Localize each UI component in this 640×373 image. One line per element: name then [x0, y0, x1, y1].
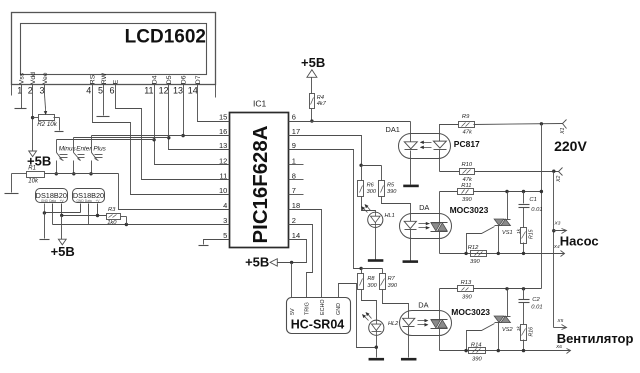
svg-text:14: 14: [292, 231, 300, 240]
svg-text:11: 11: [144, 86, 153, 96]
svg-text:1k: 1k: [516, 326, 522, 332]
svg-text:X5: X5: [556, 318, 563, 324]
svg-text:Vdd: Vdd: [30, 72, 37, 84]
svg-text:MOC3023: MOC3023: [450, 205, 489, 215]
svg-text:Plus: Plus: [93, 145, 106, 152]
svg-text:R15: R15: [529, 229, 535, 239]
svg-text:R6: R6: [367, 183, 375, 189]
svg-text:Vss: Vss: [19, 72, 26, 84]
svg-text:D7: D7: [195, 75, 202, 84]
svg-text:0.01: 0.01: [531, 305, 542, 311]
svg-text:4: 4: [86, 86, 91, 96]
svg-text:IC1: IC1: [253, 98, 267, 108]
svg-text:300: 300: [367, 283, 377, 289]
svg-text:R5: R5: [387, 183, 395, 189]
svg-text:2: 2: [292, 216, 296, 225]
svg-text:X3: X3: [554, 221, 561, 227]
svg-text:VS2: VS2: [502, 327, 513, 333]
svg-text:220V: 220V: [554, 138, 587, 154]
svg-text:VS1: VS1: [502, 230, 513, 236]
svg-text:X2: X2: [556, 176, 562, 183]
svg-text:D5: D5: [166, 75, 173, 84]
svg-text:GND: GND: [41, 199, 49, 203]
svg-text:R12: R12: [468, 245, 479, 251]
svg-text:4: 4: [223, 201, 227, 210]
svg-text:ECHO: ECHO: [320, 299, 326, 315]
svg-text:1k: 1k: [516, 228, 522, 234]
svg-text:1: 1: [292, 156, 296, 165]
svg-text:R10: R10: [462, 162, 473, 168]
svg-text:13: 13: [173, 86, 183, 96]
svg-text:+5B: +5B: [51, 244, 75, 259]
svg-text:6: 6: [110, 86, 115, 96]
svg-text:17: 17: [292, 127, 300, 136]
svg-text:C2: C2: [532, 297, 540, 303]
svg-text:9: 9: [292, 141, 296, 150]
svg-text:15: 15: [219, 112, 227, 121]
svg-text:18: 18: [292, 201, 300, 210]
svg-text:390: 390: [387, 189, 397, 195]
svg-text:PIC16F628A: PIC16F628A: [250, 125, 272, 243]
svg-text:DA1: DA1: [386, 125, 400, 134]
svg-text:390: 390: [462, 197, 472, 203]
svg-text:47k: 47k: [463, 177, 473, 183]
svg-text:R2 10k: R2 10k: [37, 121, 58, 128]
svg-text:R8: R8: [367, 276, 375, 282]
svg-text:6: 6: [292, 112, 296, 121]
svg-text:R14: R14: [471, 342, 482, 348]
svg-text:Data: Data: [85, 199, 92, 203]
svg-text:10: 10: [219, 186, 227, 195]
svg-text:3: 3: [223, 216, 227, 225]
svg-text:13: 13: [219, 141, 227, 150]
svg-text:RS: RS: [90, 74, 97, 84]
svg-text:D6: D6: [180, 75, 187, 84]
svg-text:HL1: HL1: [385, 213, 395, 219]
svg-text:PC817: PC817: [454, 139, 480, 149]
svg-text:7: 7: [292, 186, 296, 195]
svg-text:Enter: Enter: [76, 145, 92, 152]
svg-text:TRIG: TRIG: [305, 302, 311, 315]
svg-text:R11: R11: [461, 183, 471, 189]
svg-text:1k0: 1k0: [107, 220, 117, 226]
svg-text:D4: D4: [151, 75, 158, 84]
svg-text:R16: R16: [529, 327, 535, 337]
svg-text:16: 16: [219, 127, 227, 136]
svg-text:4k7: 4k7: [317, 101, 327, 107]
svg-text:+5B: +5B: [301, 55, 325, 70]
svg-text:47k: 47k: [463, 129, 473, 135]
svg-text:300: 300: [367, 189, 377, 195]
svg-text:R3: R3: [108, 207, 116, 213]
svg-text:RW: RW: [101, 72, 108, 84]
svg-text:R7: R7: [388, 276, 396, 282]
svg-text:DA: DA: [419, 203, 429, 212]
svg-text:HC-SR04: HC-SR04: [291, 318, 345, 332]
svg-text:5: 5: [223, 231, 227, 240]
svg-text:+5B: +5B: [245, 254, 269, 269]
svg-text:5: 5: [98, 86, 103, 96]
svg-text:HL2: HL2: [388, 321, 399, 327]
svg-text:390: 390: [472, 356, 482, 362]
svg-text:3: 3: [40, 86, 45, 96]
svg-text:12: 12: [219, 156, 227, 165]
svg-text:Vee: Vee: [42, 72, 49, 84]
svg-text:11: 11: [220, 171, 228, 180]
svg-text:E: E: [113, 79, 120, 84]
svg-text:0.01: 0.01: [531, 207, 542, 213]
svg-text:Data: Data: [49, 199, 56, 203]
svg-text:LCD1602: LCD1602: [125, 27, 206, 48]
svg-text:12: 12: [159, 86, 169, 96]
svg-text:DA: DA: [418, 300, 428, 309]
svg-text:C1: C1: [529, 197, 536, 203]
svg-text:GND: GND: [336, 303, 342, 315]
svg-text:14: 14: [188, 86, 198, 96]
svg-text:GND: GND: [77, 199, 85, 203]
svg-text:R9: R9: [462, 114, 470, 120]
svg-text:8: 8: [292, 171, 296, 180]
svg-text:R13: R13: [461, 280, 472, 286]
svg-text:Насос: Насос: [560, 233, 599, 248]
svg-text:390: 390: [470, 259, 480, 265]
svg-text:МОС3023: МОС3023: [451, 307, 490, 317]
svg-text:10k: 10k: [28, 178, 39, 184]
svg-text:390: 390: [388, 283, 398, 289]
svg-text:2: 2: [28, 86, 33, 96]
svg-text:X1: X1: [560, 127, 566, 134]
svg-text:R1: R1: [28, 165, 36, 171]
svg-text:390: 390: [462, 295, 472, 301]
svg-text:5V: 5V: [290, 308, 296, 315]
svg-text:Вентилятор: Вентилятор: [557, 331, 634, 346]
